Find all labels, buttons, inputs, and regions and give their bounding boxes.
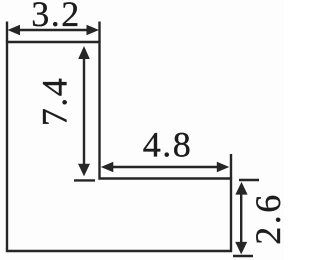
dimension line 4.8 <box>106 166 224 168</box>
arrowhead 3.2 left <box>8 25 21 36</box>
svg-text:7.4: 7.4 <box>35 77 75 127</box>
svg-text:2.6: 2.6 <box>248 192 284 245</box>
extension bar right of step edge <box>239 179 259 181</box>
extension line right of top edge <box>98 22 100 43</box>
svg-text:4.8: 4.8 <box>143 125 193 165</box>
arrowhead 7.4 up <box>78 46 90 59</box>
svg-text:3.2: 3.2 <box>31 0 81 34</box>
arrowhead 7.4 down <box>78 164 90 177</box>
extension bar below bottom edge <box>233 255 253 257</box>
arrowhead 4.8 right <box>217 162 230 173</box>
dimension line 7.4 <box>83 52 85 170</box>
arrowhead 3.2 right <box>87 25 100 36</box>
arrowhead 2.6 down <box>235 242 247 255</box>
extension line left top <box>6 22 8 43</box>
extension bar left of step edge <box>74 179 95 181</box>
L-shape outline <box>7 42 231 251</box>
dimension line 2.6 <box>240 188 242 248</box>
arrowhead 2.6 up <box>235 182 247 195</box>
arrowhead 4.8 left <box>101 162 114 173</box>
extension line above step corner <box>230 154 232 179</box>
dimension line 3.2 <box>16 29 90 31</box>
